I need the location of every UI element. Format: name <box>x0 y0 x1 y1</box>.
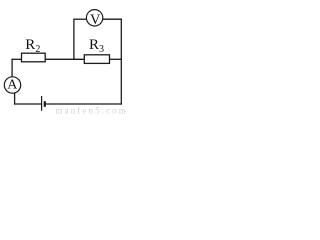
wire: middle segment R3 to right vertical <box>110 58 123 60</box>
ammeter U2 circle <box>4 77 20 93</box>
wire: middle left stub <box>12 58 22 60</box>
svg-text:manfen5.com: manfen5.com <box>56 106 128 116</box>
battery BT1 short plate <box>44 101 46 107</box>
wire: vertical below ammeter <box>14 93 16 105</box>
svg-text:A: A <box>7 78 18 93</box>
wire: middle segment R2 to R3 <box>45 58 84 60</box>
wire: top loop right segment <box>103 18 122 20</box>
wire: left vertical above ammeter <box>11 59 13 77</box>
resistor R3 box <box>84 55 109 64</box>
svg-text:V: V <box>90 12 101 28</box>
wire: voltmeter branch left vertical <box>73 19 75 60</box>
wire: bottom left segment <box>14 103 42 105</box>
wire: top loop left segment <box>74 18 87 20</box>
wire: bottom right segment <box>45 103 122 105</box>
battery BT1 long plate <box>41 96 43 111</box>
wire: right vertical <box>120 19 122 105</box>
resistor R2 box <box>22 53 46 62</box>
voltmeter U1 circle <box>86 10 102 26</box>
